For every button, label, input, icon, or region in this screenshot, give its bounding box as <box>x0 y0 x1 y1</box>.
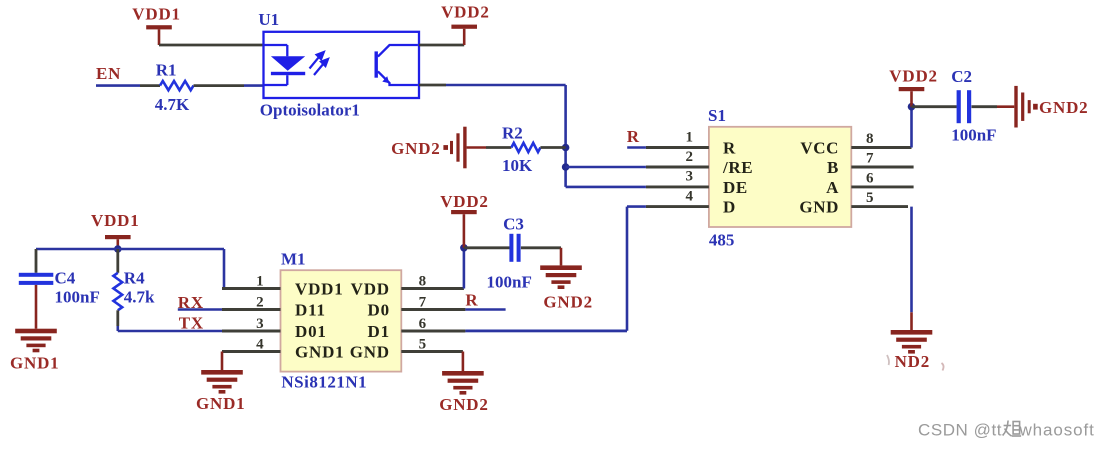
svg-text:A: A <box>826 178 839 197</box>
svg-text:3: 3 <box>686 169 694 185</box>
svg-text:EN: EN <box>96 64 121 83</box>
svg-text:7: 7 <box>419 295 427 311</box>
svg-text:Optoisolator1: Optoisolator1 <box>260 101 360 120</box>
svg-text:S1: S1 <box>708 106 726 125</box>
svg-text:6: 6 <box>866 170 874 186</box>
svg-text:VDD2: VDD2 <box>441 3 490 22</box>
svg-text:TX: TX <box>179 314 204 333</box>
svg-text:CSDN @tt: CSDN @tt <box>918 421 1002 440</box>
svg-text:D11: D11 <box>295 301 326 320</box>
svg-text:100nF: 100nF <box>55 288 100 307</box>
svg-text:R: R <box>627 127 640 146</box>
svg-text:1: 1 <box>686 129 694 145</box>
svg-text:R: R <box>465 291 478 310</box>
svg-text:C2: C2 <box>951 67 972 86</box>
svg-text:10K: 10K <box>502 156 533 175</box>
svg-text:VDD2: VDD2 <box>889 66 938 85</box>
svg-text:VCC: VCC <box>800 139 839 158</box>
svg-text:100nF: 100nF <box>487 273 532 292</box>
svg-text:8: 8 <box>419 274 427 290</box>
svg-text:GND2: GND2 <box>1039 98 1088 117</box>
svg-text:R: R <box>723 139 736 158</box>
svg-text:D: D <box>723 198 736 217</box>
svg-text:5: 5 <box>866 190 874 206</box>
svg-text:R1: R1 <box>156 61 177 80</box>
svg-text:C4: C4 <box>55 269 76 288</box>
svg-text:4.7k: 4.7k <box>124 288 155 307</box>
svg-text:4: 4 <box>686 188 694 204</box>
svg-text:VDD1: VDD1 <box>295 280 344 299</box>
svg-text:GND1: GND1 <box>10 354 59 373</box>
svg-text:100nF: 100nF <box>951 126 996 145</box>
svg-text:whaosoft: whaosoft <box>1019 421 1095 440</box>
svg-text:3: 3 <box>256 316 264 332</box>
svg-text:6: 6 <box>419 316 427 332</box>
svg-text:VDD1: VDD1 <box>132 5 181 24</box>
svg-text:1: 1 <box>256 274 264 290</box>
svg-text:VDD: VDD <box>351 280 390 299</box>
svg-text:GND2: GND2 <box>391 139 440 158</box>
svg-text:GND1: GND1 <box>196 394 245 413</box>
svg-text:D0: D0 <box>368 301 390 320</box>
svg-text:GND1: GND1 <box>295 343 344 362</box>
svg-text:485: 485 <box>709 231 735 250</box>
svg-text:NSi8121N1: NSi8121N1 <box>281 373 367 392</box>
svg-text:M1: M1 <box>281 250 306 269</box>
svg-text:D1: D1 <box>368 322 390 341</box>
svg-text:U1: U1 <box>258 10 279 29</box>
svg-text:GND: GND <box>350 343 390 362</box>
svg-text:C3: C3 <box>503 215 524 234</box>
svg-text:GND2: GND2 <box>439 395 488 414</box>
svg-text:8: 8 <box>866 131 874 147</box>
svg-text:4: 4 <box>256 337 264 353</box>
svg-text:GND2: GND2 <box>543 293 592 312</box>
svg-text:D01: D01 <box>295 322 327 341</box>
svg-text:/RE: /RE <box>722 158 753 177</box>
svg-text:5: 5 <box>419 337 427 353</box>
svg-text:2: 2 <box>256 295 264 311</box>
svg-text:R4: R4 <box>124 269 145 288</box>
svg-text:2: 2 <box>686 149 694 165</box>
svg-text:R2: R2 <box>502 124 523 143</box>
svg-text:DE: DE <box>723 178 748 197</box>
svg-text:4.7K: 4.7K <box>155 95 190 114</box>
svg-text:GND: GND <box>799 198 839 217</box>
svg-text:VDD1: VDD1 <box>91 211 140 230</box>
svg-text:7: 7 <box>866 151 874 167</box>
svg-text:B: B <box>827 158 839 177</box>
svg-text:ND2: ND2 <box>895 352 930 371</box>
svg-text:VDD2: VDD2 <box>440 192 489 211</box>
